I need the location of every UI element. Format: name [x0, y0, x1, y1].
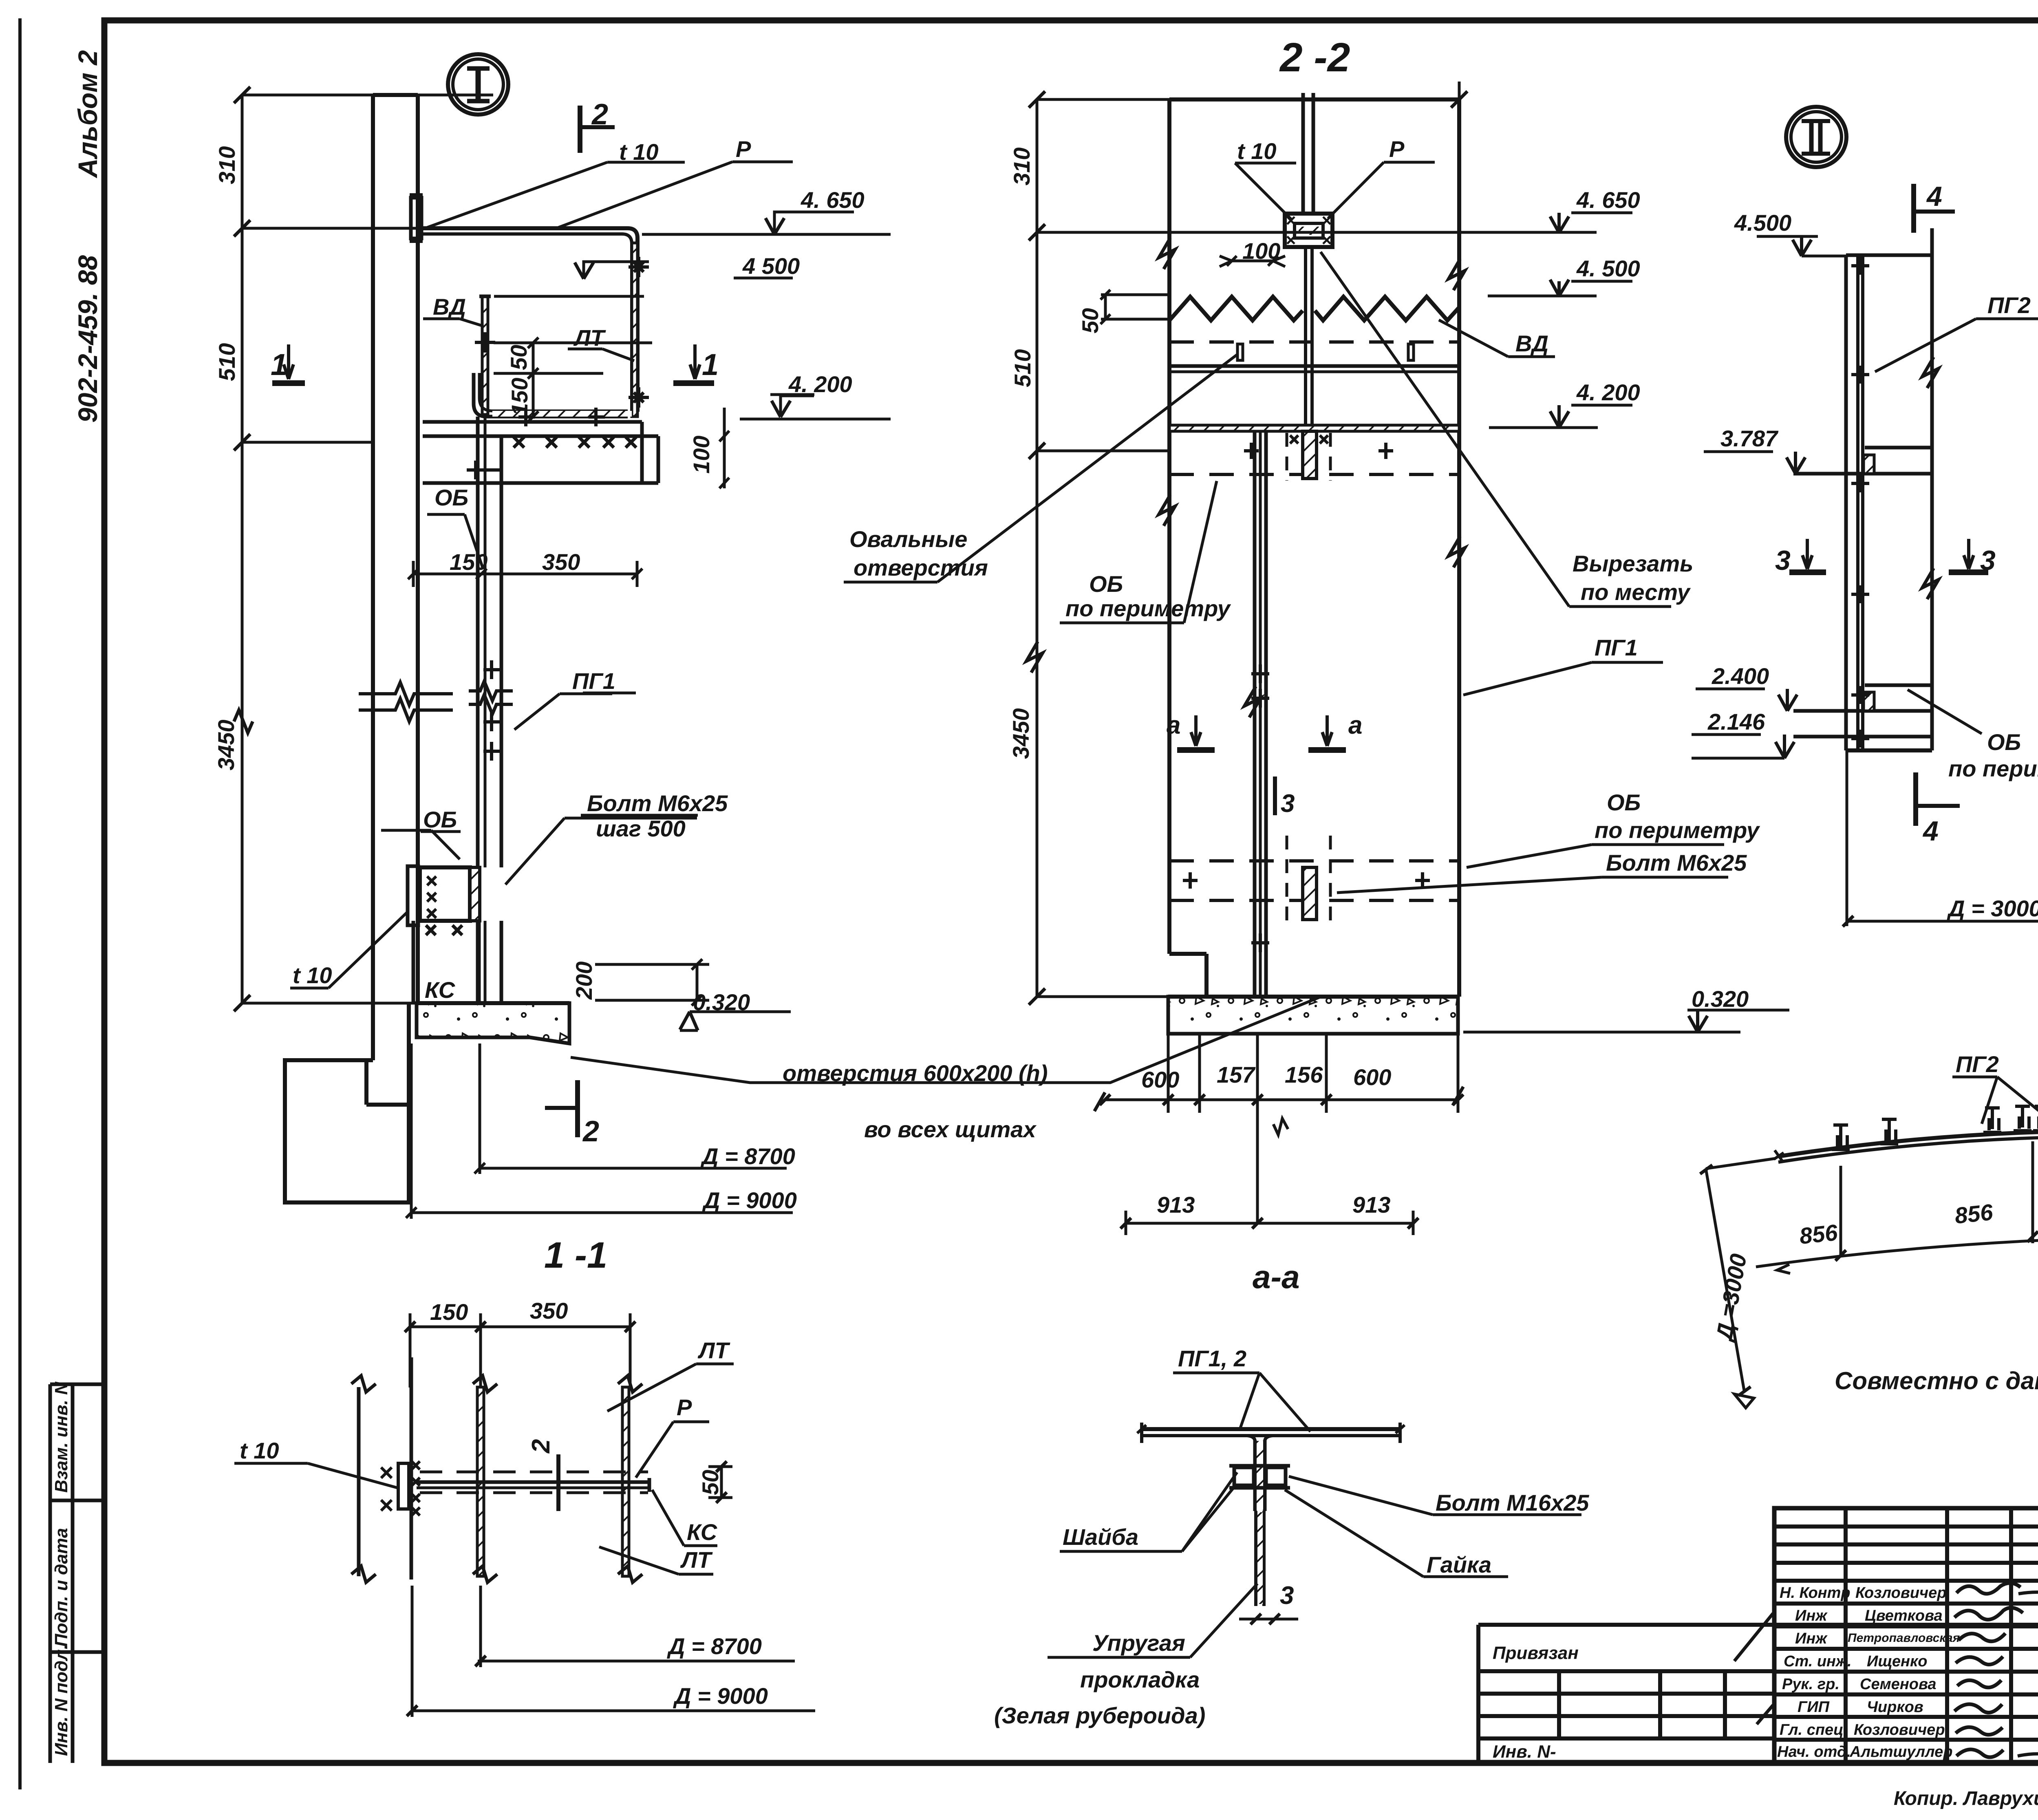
svg-text:(Зелая рубероида): (Зелая рубероида): [994, 1703, 1205, 1728]
svg-text:100: 100: [688, 436, 714, 474]
svg-text:ПГ1: ПГ1: [572, 668, 615, 694]
svg-text:Взам. инв. N: Взам. инв. N: [51, 1381, 71, 1493]
svg-text:по месту: по месту: [1581, 579, 1691, 605]
svg-text:ОБ: ОБ: [435, 485, 468, 510]
svg-text:Д = 9000: Д = 9000: [673, 1683, 768, 1709]
svg-text:310: 310: [214, 146, 240, 184]
svg-text:50: 50: [1077, 308, 1103, 333]
svg-text:Гл. спец: Гл. спец: [1780, 1721, 1844, 1738]
svg-text:Рук. гр.: Рук. гр.: [1782, 1676, 1839, 1693]
svg-text:3.787: 3.787: [1720, 426, 1779, 451]
svg-text:Болт М6х25: Болт М6х25: [1606, 850, 1747, 876]
svg-text:по периметру: по периметру: [1065, 596, 1231, 621]
svg-text:2.146: 2.146: [1707, 709, 1765, 735]
svg-text:350: 350: [542, 549, 580, 575]
svg-text:Инж: Инж: [1795, 1607, 1828, 1624]
svg-text:шаг 500: шаг 500: [596, 816, 686, 841]
svg-text:а-а: а-а: [1253, 1259, 1300, 1295]
svg-text:Упругая: Упругая: [1092, 1630, 1185, 1656]
svg-text:Чирков: Чирков: [1867, 1699, 1923, 1716]
svg-text:по периметру: по периметру: [1948, 756, 2038, 781]
svg-text:Привязан: Привязан: [1493, 1643, 1579, 1663]
svg-text:310: 310: [1009, 148, 1034, 185]
svg-text:Инж: Инж: [1795, 1630, 1828, 1647]
svg-text:КС: КС: [687, 1519, 718, 1545]
svg-text:прокладка: прокладка: [1080, 1667, 1200, 1692]
svg-text:Альбом 2: Альбом 2: [73, 50, 103, 179]
svg-text:150: 150: [450, 549, 487, 575]
svg-text:150: 150: [430, 1299, 468, 1325]
svg-text:Д = 8700: Д = 8700: [667, 1633, 762, 1659]
svg-text:Подп. и дата: Подп. и дата: [51, 1528, 71, 1647]
svg-text:Козловичер: Козловичер: [1855, 1584, 1947, 1602]
svg-text:t 10: t 10: [240, 1438, 279, 1463]
svg-text:ПГ2: ПГ2: [1987, 292, 2031, 318]
svg-text:3: 3: [1281, 790, 1295, 818]
svg-text:Р: Р: [677, 1394, 692, 1420]
svg-text:600: 600: [1353, 1064, 1391, 1090]
svg-text:а: а: [1348, 711, 1362, 739]
svg-text:Совместно с данным см: Совместно с данным см. л. КМ-3: [1835, 1367, 2038, 1394]
svg-text:Петропавловская: Петропавловская: [1848, 1631, 1960, 1645]
svg-text:ВД: ВД: [1515, 331, 1548, 356]
svg-text:КС: КС: [425, 977, 456, 1003]
svg-text:Козловичер: Козловичер: [1854, 1721, 1945, 1738]
svg-text:1: 1: [702, 348, 719, 382]
svg-text:по периметру: по периметру: [1595, 817, 1760, 843]
svg-text:Инв. N подл.: Инв. N подл.: [51, 1644, 71, 1756]
svg-text:510: 510: [214, 343, 240, 381]
svg-text:350: 350: [530, 1298, 568, 1324]
svg-text:Д = 9000: Д = 9000: [702, 1187, 797, 1213]
svg-text:902-2-459. 88: 902-2-459. 88: [73, 255, 103, 423]
svg-text:1 -1: 1 -1: [544, 1235, 607, 1276]
svg-text:Семенова: Семенова: [1860, 1676, 1937, 1693]
svg-text:Шайба: Шайба: [1063, 1524, 1138, 1550]
svg-text:50: 50: [506, 345, 532, 370]
svg-text:Болт М16х25: Болт М16х25: [1436, 1490, 1589, 1516]
svg-text:ГИП: ГИП: [1798, 1699, 1830, 1716]
svg-text:ЛТ: ЛТ: [573, 325, 606, 351]
svg-text:Инв. N-: Инв. N-: [1493, 1742, 1556, 1762]
svg-text:3: 3: [1980, 545, 1996, 576]
svg-text:Р: Р: [1389, 136, 1405, 162]
svg-text:Гайка: Гайка: [1427, 1552, 1491, 1577]
svg-text:4. 500: 4. 500: [1576, 256, 1640, 281]
svg-text:856: 856: [1954, 1199, 1994, 1229]
svg-text:ОБ: ОБ: [423, 807, 457, 832]
svg-text:Р: Р: [736, 136, 751, 162]
svg-text:а: а: [1167, 711, 1180, 739]
svg-text:0.320: 0.320: [1692, 986, 1749, 1012]
svg-text:ПГ1: ПГ1: [1595, 635, 1638, 660]
svg-text:ОБ: ОБ: [1987, 729, 2021, 755]
svg-text:Болт М6х25: Болт М6х25: [587, 790, 728, 816]
svg-text:Вырезать: Вырезать: [1573, 551, 1693, 576]
svg-text:2: 2: [582, 1115, 599, 1148]
svg-text:156: 156: [1285, 1062, 1323, 1088]
svg-text:50: 50: [697, 1470, 723, 1495]
svg-text:Копир. Лаврухина: Копир. Лаврухина: [1894, 1788, 2038, 1809]
svg-text:4. 650: 4. 650: [801, 187, 865, 213]
svg-text:2: 2: [527, 1439, 555, 1454]
svg-text:510: 510: [1010, 349, 1035, 387]
svg-text:2 -2: 2 -2: [1279, 35, 1350, 80]
svg-text:во всех щитах: во всех щитах: [864, 1116, 1037, 1142]
svg-text:913: 913: [1352, 1192, 1390, 1218]
svg-text:3: 3: [1280, 1582, 1294, 1610]
svg-text:100: 100: [1242, 238, 1280, 264]
svg-text:200: 200: [571, 962, 597, 1000]
svg-text:157: 157: [1217, 1062, 1256, 1088]
svg-text:ОБ: ОБ: [1089, 571, 1123, 597]
svg-text:ВД: ВД: [433, 294, 466, 320]
svg-text:Ищенко: Ищенко: [1867, 1653, 1927, 1670]
svg-text:4 500: 4 500: [742, 253, 800, 279]
svg-text:t 10: t 10: [619, 139, 659, 165]
svg-text:ЛТ: ЛТ: [697, 1337, 730, 1363]
svg-text:4: 4: [1922, 816, 1939, 847]
svg-text:3450: 3450: [213, 719, 239, 770]
svg-text:4: 4: [1926, 181, 1942, 212]
svg-text:4. 200: 4. 200: [1576, 379, 1640, 405]
svg-text:ЛТ: ЛТ: [680, 1547, 713, 1573]
svg-text:ПГ1, 2: ПГ1, 2: [1178, 1346, 1246, 1371]
svg-text:Цветкова: Цветкова: [1865, 1607, 1943, 1624]
svg-text:Нач. отд.: Нач. отд.: [1777, 1743, 1851, 1760]
svg-text:Овальные: Овальные: [849, 526, 967, 552]
svg-text:1: 1: [271, 348, 287, 382]
svg-text:4.500: 4.500: [1734, 210, 1791, 236]
svg-text:2: 2: [591, 98, 608, 131]
svg-text:600: 600: [1141, 1067, 1179, 1092]
svg-text:Д = 8700: Д = 8700: [700, 1143, 795, 1169]
svg-text:3450: 3450: [1008, 708, 1034, 759]
svg-text:856: 856: [1798, 1219, 1839, 1249]
svg-text:ОБ: ОБ: [1607, 790, 1641, 815]
svg-text:t 10: t 10: [293, 962, 332, 988]
svg-text:4. 650: 4. 650: [1576, 187, 1640, 213]
svg-text:4. 200: 4. 200: [788, 371, 852, 397]
svg-text:ПГ2: ПГ2: [1956, 1051, 1999, 1077]
svg-text:Альтшуллер: Альтшуллер: [1849, 1743, 1953, 1760]
svg-text:3: 3: [1775, 545, 1791, 576]
svg-text:t 10: t 10: [1237, 138, 1277, 164]
svg-text:Ст. инж.: Ст. инж.: [1784, 1653, 1852, 1670]
svg-text:Н. Контр: Н. Контр: [1780, 1584, 1851, 1602]
svg-text:2.400: 2.400: [1712, 663, 1769, 689]
svg-text:150: 150: [507, 378, 532, 416]
svg-text:Д = 3000: Д = 3000: [1947, 896, 2038, 921]
svg-text:913: 913: [1157, 1192, 1195, 1218]
